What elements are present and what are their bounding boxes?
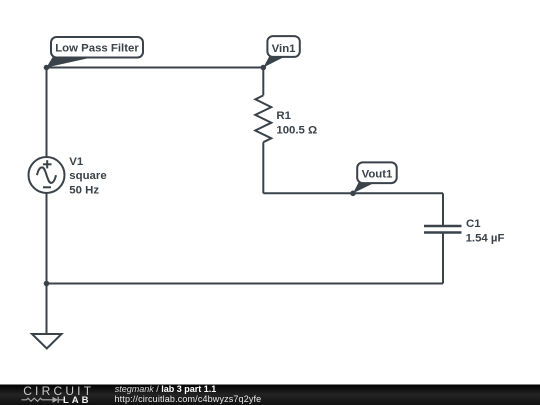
junction node top-left	[44, 65, 50, 71]
label R1	[276, 110, 317, 136]
wire right vertical C1 top lead	[442, 193, 444, 226]
svg-text:V1: V1	[69, 156, 84, 168]
junction node Vin1	[261, 65, 267, 71]
wire left vertical to V1 top	[46, 68, 48, 158]
node flag Vout1	[353, 162, 397, 193]
voltage source V1	[29, 157, 65, 193]
wire right vertical C1 bottom lead	[442, 233, 444, 284]
wire bottom horizontal ground net	[47, 283, 444, 285]
svg-text:stegmank / lab 3 part 1.1: stegmank / lab 3 part 1.1	[115, 384, 217, 394]
footer credits	[115, 384, 262, 404]
svg-text:http://circuitlab.com/c4bwyzs7: http://circuitlab.com/c4bwyzs7q2yfe	[115, 394, 262, 404]
svg-text:R1: R1	[276, 110, 291, 122]
svg-text:50 Hz: 50 Hz	[69, 185, 99, 197]
logo CircuitLab	[22, 384, 95, 405]
svg-text:Vin1: Vin1	[272, 43, 297, 55]
wire V1 bottom to ground net	[46, 193, 48, 284]
ground	[32, 284, 62, 349]
wire resistor bottom lead	[262, 142, 264, 193]
svg-text:Vout1: Vout1	[362, 168, 393, 180]
svg-text:C1: C1	[466, 218, 481, 230]
resistor R1	[255, 95, 271, 142]
junction node ground	[44, 281, 50, 287]
label C1	[466, 218, 505, 244]
svg-text:Low Pass Filter: Low Pass Filter	[55, 43, 139, 55]
wire top horizontal Vin net	[47, 67, 264, 69]
wire resistor top lead	[262, 68, 264, 96]
node flag Vin1	[263, 36, 300, 67]
svg-text:1.54 µF: 1.54 µF	[466, 232, 505, 244]
svg-text:LAB: LAB	[63, 395, 92, 405]
svg-text:100.5 Ω: 100.5 Ω	[276, 124, 317, 136]
svg-text:square: square	[69, 170, 106, 182]
capacitor C1	[424, 226, 462, 233]
wire middle horizontal Vout net	[263, 192, 443, 194]
label V1	[69, 156, 106, 197]
junction node Vout1	[350, 191, 356, 197]
node flag Low Pass Filter	[46, 37, 143, 68]
